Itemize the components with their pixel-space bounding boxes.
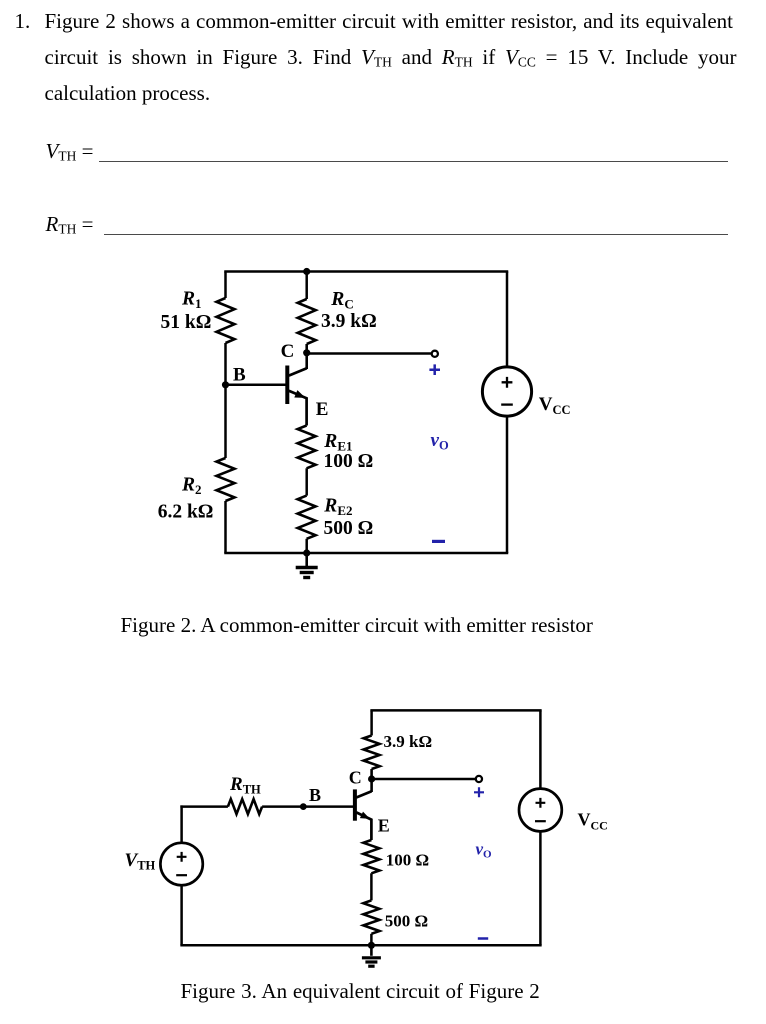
blue plus output polarity <box>474 787 484 797</box>
wire: left vertical from base wire to VTH <box>180 805 183 843</box>
svg-text:500 Ω: 500 Ω <box>324 518 374 539</box>
svg-text:RTH: RTH <box>229 774 261 797</box>
voltage source Vcc circle <box>519 789 562 832</box>
Vcc minus sign <box>535 820 546 822</box>
open output terminal <box>476 776 482 782</box>
transistor Q1 emitter lead with arrow <box>356 812 371 840</box>
wire: base lead <box>226 384 288 387</box>
svg-text:R2: R2 <box>181 475 202 498</box>
wire: Figure 2 top rail <box>224 270 508 273</box>
paragraph line 2 <box>45 46 737 74</box>
svg-text:51 kΩ: 51 kΩ <box>161 312 212 333</box>
wire: right branch upper (Vcc top lead) <box>539 710 542 788</box>
svg-text:RC: RC <box>330 289 353 312</box>
transistor Q1 base bar <box>353 789 357 820</box>
transistor Q1 collector lead <box>356 791 371 797</box>
node: collector junction dot <box>368 775 375 782</box>
wire: middle branch top lead into RC <box>305 272 308 300</box>
wire: VTH bottom lead <box>180 885 183 945</box>
wire: left branch lower segment <box>224 501 227 553</box>
voltage source VTH circle <box>160 843 202 885</box>
problem item number 1. <box>15 10 31 33</box>
Vcc plus sign <box>536 798 546 808</box>
caption Figure 3 <box>181 980 540 1003</box>
svg-text:vO: vO <box>431 430 449 453</box>
ground symbol <box>370 945 373 956</box>
wire: Vcc bottom lead <box>539 831 542 945</box>
answer blank line for RTH <box>104 234 728 235</box>
caption Figure 2 <box>121 614 593 637</box>
resistor RE1 <box>298 426 316 469</box>
svg-text:VTH: VTH <box>125 850 156 873</box>
wire: output wire to open terminal <box>307 352 431 355</box>
svg-text:6.2 kΩ: 6.2 kΩ <box>158 502 214 523</box>
svg-text:B: B <box>233 364 246 385</box>
transistor Q1 base bar <box>285 366 289 405</box>
node: ground junction dot <box>368 942 375 949</box>
wire: left branch between R1 and R2 <box>224 343 227 458</box>
node: base junction dot <box>300 803 307 810</box>
ground symbol <box>305 553 308 566</box>
Vcc plus sign <box>502 377 513 388</box>
node: base junction dot <box>222 381 229 388</box>
wire: top lead into 3.9k resistor <box>370 710 373 735</box>
svg-text:100 Ω: 100 Ω <box>324 451 374 472</box>
svg-text:500 Ω: 500 Ω <box>385 912 428 931</box>
resistor 100 Ohm <box>363 840 379 873</box>
svg-text:B: B <box>309 785 321 805</box>
VTH minus sign <box>176 874 187 876</box>
answer blank line for VTH <box>99 161 728 162</box>
wire: right branch lower (Vcc bottom lead) <box>506 416 509 553</box>
open output terminal <box>432 351 438 357</box>
svg-text:100 Ω: 100 Ω <box>386 851 429 870</box>
wire: Figure 3 top rail <box>370 709 541 712</box>
paragraph line 3 <box>45 82 211 105</box>
wire: base wire right of RTH <box>262 805 353 808</box>
blue minus output polarity <box>432 540 445 543</box>
wire: between 100 and 500 resistors <box>370 873 373 900</box>
transistor Q1 collector lead <box>289 368 307 375</box>
svg-text:E: E <box>316 399 329 420</box>
wire: RE2 bottom lead <box>305 539 308 553</box>
svg-text:VCC: VCC <box>539 394 571 417</box>
blue plus output polarity <box>429 364 440 375</box>
node: top junction dot <box>303 268 310 275</box>
VTH plus sign <box>177 852 187 862</box>
node: ground junction dot <box>303 549 310 556</box>
wire: bottom rail <box>224 552 508 555</box>
resistor R2 <box>217 458 235 501</box>
wire: output wire to open terminal <box>372 778 475 781</box>
answer label VTH = <box>46 140 94 168</box>
svg-text:E: E <box>378 816 390 836</box>
wire: base wire left of RTH <box>180 805 228 808</box>
transistor Q1 emitter lead with arrow <box>289 391 307 426</box>
resistor 3.9 kOhm <box>364 736 380 770</box>
resistor RC <box>298 299 316 344</box>
resistor 500 Ohm <box>363 900 379 933</box>
svg-text:C: C <box>349 768 362 788</box>
svg-text:vO: vO <box>476 840 493 861</box>
svg-text:3.9 kΩ: 3.9 kΩ <box>321 311 377 332</box>
wire: between RE1 and RE2 <box>305 468 308 495</box>
resistor RTH <box>228 799 262 814</box>
paragraph line 1 <box>45 10 734 33</box>
wire: right branch upper (Vcc top lead) <box>506 272 509 368</box>
svg-text:VCC: VCC <box>578 810 608 833</box>
Vcc minus sign <box>501 403 513 405</box>
wire: resistor to collector node <box>370 769 373 792</box>
resistor R1 <box>217 298 235 343</box>
wire: bottom rail <box>180 944 541 947</box>
wire: left branch upper segment <box>224 272 227 299</box>
svg-text:RE2: RE2 <box>323 496 352 519</box>
wire: RC bottom lead to collector node <box>305 344 308 369</box>
svg-text:C: C <box>281 341 295 362</box>
wire: 500 Ohm bottom lead <box>370 934 373 946</box>
blue minus output polarity <box>478 937 488 940</box>
svg-text:R1: R1 <box>181 289 202 312</box>
resistor RE2 <box>298 496 316 539</box>
node: collector junction dot <box>303 349 310 356</box>
answer label RTH = <box>46 213 94 241</box>
voltage source Vcc circle <box>482 367 531 416</box>
svg-text:3.9 kΩ: 3.9 kΩ <box>384 732 433 751</box>
